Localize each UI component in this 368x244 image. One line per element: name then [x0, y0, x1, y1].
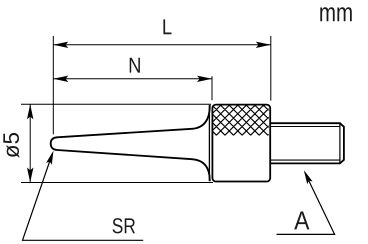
arrowhead dia top [27, 104, 33, 119]
thread root line bottom [271, 159, 340, 161]
label N [130, 58, 140, 73]
dimension line diameter [29, 104, 31, 182]
extension line left (L/N datum) [52, 36, 54, 134]
arrowhead N right [197, 76, 212, 82]
extension line right for N [211, 76, 213, 100]
arrowhead N left [53, 76, 68, 82]
label L [163, 19, 171, 34]
extension line top for diameter [21, 103, 211, 105]
leader A [277, 172, 335, 234]
threaded stud outline [271, 123, 344, 163]
unit label mm [320, 7, 352, 21]
knurl crosshatch [213, 105, 269, 135]
thread root line top [271, 126, 340, 128]
dimension line L [53, 44, 270, 46]
arrowhead L left [53, 42, 68, 48]
arrowhead A leader [304, 170, 313, 184]
extension line right for L [270, 36, 272, 101]
contact point cone outline [51, 105, 210, 181]
dimension line N [53, 78, 212, 80]
leader SR [23, 153, 144, 240]
arrowhead SR leader [46, 151, 53, 165]
arrowhead dia bottom [27, 168, 33, 183]
label SR [113, 218, 135, 233]
cone base face line [208, 105, 210, 181]
stud chamfer line [339, 123, 341, 163]
extension line bottom for diameter [21, 182, 213, 184]
arrowhead L right [256, 42, 271, 48]
label dia 5 [3, 133, 19, 158]
label A [294, 212, 309, 230]
knurled cylinder body [212, 105, 270, 182]
